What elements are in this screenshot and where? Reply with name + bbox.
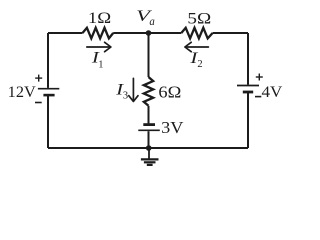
wire top-left segment (48, 32, 83, 34)
resistor R2 5ohm zigzag (181, 28, 212, 39)
wire left branch upper (47, 33, 49, 88)
wire middle below battery (148, 131, 150, 148)
battery V2 4V plates (237, 86, 259, 93)
arrow current I2 (185, 42, 209, 51)
svg-text:3V: 3V (161, 118, 183, 137)
svg-text:3: 3 (123, 91, 128, 102)
svg-text:2: 2 (197, 59, 202, 70)
arrow current I3 (129, 78, 138, 101)
svg-text:12V: 12V (8, 84, 37, 101)
wire middle below resistor (148, 106, 150, 124)
svg-text:6Ω: 6Ω (158, 83, 181, 102)
node bottom junction dot (146, 145, 152, 151)
battery V3 3V plates (138, 125, 160, 131)
arrow current I1 (87, 42, 111, 51)
resistor R3 6ohm zigzag (144, 77, 153, 106)
svg-text:a: a (149, 16, 155, 28)
svg-text:1Ω: 1Ω (88, 10, 111, 27)
wire left branch lower (47, 96, 49, 148)
wire right branch lower (247, 93, 249, 148)
wire top-middle segment (113, 32, 181, 34)
wire bottom segment (48, 147, 248, 149)
wire right branch upper (247, 33, 249, 85)
svg-text:1: 1 (98, 59, 103, 70)
minus sign left battery (35, 102, 42, 104)
svg-text:5Ω: 5Ω (187, 10, 211, 27)
svg-text:4V: 4V (262, 84, 283, 101)
plus sign left battery (35, 75, 42, 82)
ground (141, 148, 159, 165)
minus sign right battery (255, 96, 261, 98)
resistor R1 1ohm zigzag (83, 28, 114, 39)
wire top-right segment (213, 32, 248, 34)
wire middle branch upper (148, 33, 150, 77)
node Va dot (146, 30, 152, 36)
plus sign right battery (256, 74, 263, 81)
battery V1 12V plates (38, 89, 59, 95)
